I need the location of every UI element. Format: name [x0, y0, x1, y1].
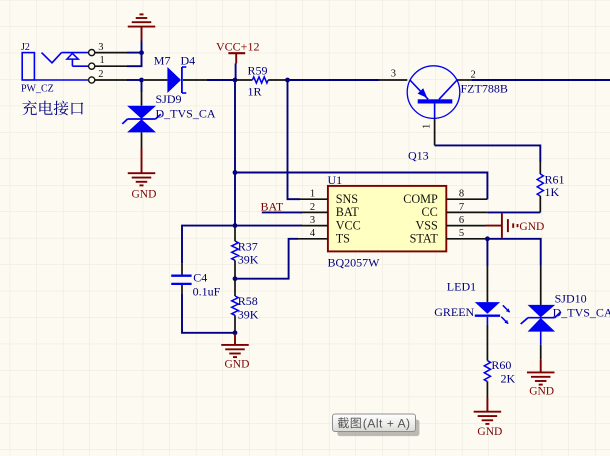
svg-text:PW_CZ: PW_CZ — [21, 83, 54, 94]
svg-text:3: 3 — [310, 215, 315, 226]
IC U1 BQ2057W body — [328, 173, 447, 269]
U1 pin 8 COMP — [403, 189, 487, 206]
svg-text:2: 2 — [471, 70, 476, 81]
svg-text:SJD9: SJD9 — [156, 92, 182, 106]
ground (top, flipped) — [128, 14, 156, 40]
svg-text:(Alt + A): (Alt + A) — [363, 416, 411, 430]
svg-text:GND: GND — [519, 221, 544, 233]
svg-text:1: 1 — [100, 55, 105, 66]
wire to VCC node — [207, 79, 235, 81]
svg-text:C4: C4 — [193, 270, 207, 284]
U1 pin 7 CC — [422, 202, 488, 219]
connector J2 PW_CZ (power jack) — [21, 42, 105, 94]
resistor R60 bottom pin — [486, 382, 488, 399]
svg-text:4: 4 — [310, 228, 316, 239]
wire C4 top — [182, 226, 235, 264]
resistor R37 39K — [232, 239, 259, 266]
LED LED1 GREEN top pin — [486, 266, 488, 302]
wire TS to divider — [235, 239, 298, 279]
svg-text:1: 1 — [310, 189, 315, 200]
junction COMP tee — [233, 170, 238, 175]
wire collector to right edge — [472, 79, 610, 81]
svg-text:0.1uF: 0.1uF — [193, 285, 221, 299]
transistor Q13 FZT788B — [407, 66, 508, 163]
svg-text:VCC: VCC — [336, 218, 361, 232]
svg-text:M7: M7 — [154, 53, 171, 67]
resistor R58 bottom pin — [234, 315, 236, 333]
svg-text:1: 1 — [422, 124, 433, 129]
svg-text:D_TVS_CA: D_TVS_CA — [553, 306, 610, 320]
svg-text:VSS: VSS — [415, 218, 438, 232]
svg-text:6: 6 — [459, 215, 464, 226]
svg-text:5: 5 — [459, 228, 464, 239]
svg-text:COMP: COMP — [403, 192, 438, 206]
svg-text:39K: 39K — [238, 307, 259, 321]
svg-text:TS: TS — [336, 232, 350, 246]
svg-text:3: 3 — [391, 69, 396, 80]
U1 pin 5 STAT — [410, 228, 488, 245]
diode D4 (M7) — [154, 53, 195, 93]
svg-text:FZT788B: FZT788B — [461, 81, 508, 95]
svg-text:R58: R58 — [238, 294, 258, 308]
Q13 pin 3 — [380, 79, 408, 81]
resistor R60 2K — [484, 358, 515, 385]
LED LED1 GREEN — [434, 280, 510, 324]
svg-text:BQ2057W: BQ2057W — [328, 255, 381, 269]
resistor R59 1R — [248, 63, 269, 98]
junction divider bottom — [233, 330, 238, 335]
U1 pin 6 VSS — [415, 215, 485, 232]
junction STAT — [485, 236, 490, 241]
svg-text:R59: R59 — [248, 63, 268, 77]
svg-text:BAT: BAT — [336, 205, 360, 219]
wire gnd to node A — [141, 41, 143, 53]
resistor R61 1K — [537, 172, 564, 199]
TVS diode SJD10 D_TVS_CA — [521, 291, 610, 331]
resistor R61 bottom pin — [539, 196, 541, 212]
pin 1 stub — [95, 65, 127, 67]
resistor R59 1R left pin — [235, 79, 252, 81]
svg-text:3: 3 — [98, 42, 103, 53]
svg-text:2: 2 — [310, 202, 315, 213]
wire STAT to SJD10 — [487, 239, 540, 265]
junction node A — [139, 50, 144, 55]
svg-text:STAT: STAT — [410, 232, 439, 246]
U1 pin 4 TS — [298, 228, 350, 245]
capacitor C4 top pin — [181, 263, 183, 274]
power port VCC+12 — [216, 40, 259, 64]
svg-text:2K: 2K — [501, 371, 516, 385]
svg-text:1K: 1K — [545, 185, 560, 199]
svg-text:8: 8 — [459, 189, 464, 200]
wire node B down — [141, 80, 143, 92]
svg-text:39K: 39K — [238, 253, 259, 267]
junction node B (anode / TVS) — [139, 78, 144, 83]
TVS diode SJD10 top pin — [540, 265, 542, 305]
U1 pin 1 SNS — [289, 189, 358, 206]
resistor R58 39K — [232, 294, 259, 321]
wire VCC node down — [234, 80, 236, 226]
svg-text:2: 2 — [98, 69, 103, 80]
svg-text:GND: GND — [225, 359, 250, 371]
wire C4 bottom — [182, 293, 235, 332]
wire Q13 base to R61 — [435, 145, 541, 162]
svg-text:GND: GND — [132, 188, 157, 200]
svg-text:VCC+12: VCC+12 — [216, 40, 259, 54]
svg-text:GND: GND — [477, 426, 502, 438]
svg-text:R60: R60 — [491, 358, 511, 372]
resistor R58 top pin — [234, 279, 236, 296]
U1 pin 3 VCC — [300, 215, 361, 232]
Q13 collector pin out — [457, 79, 472, 81]
svg-text:SNS: SNS — [336, 192, 359, 206]
wire pin2 — [127, 79, 142, 81]
svg-text:7: 7 — [459, 202, 464, 213]
resistor R37 top pin — [234, 226, 236, 242]
ground below SJD9 — [128, 148, 157, 200]
ground VSS (rotated right) — [486, 213, 545, 238]
SJD10 bottom pin — [540, 332, 542, 345]
svg-text:GREEN: GREEN — [434, 305, 474, 319]
TVS SJD9 bottom pin — [141, 132, 143, 148]
junction VCC node — [233, 78, 238, 83]
caption: charging port (Chinese) — [22, 101, 83, 116]
resistor R59 right pin — [268, 79, 287, 81]
wire VCC pin — [235, 225, 302, 227]
svg-text:Q13: Q13 — [408, 149, 429, 163]
wire BAT — [262, 211, 302, 213]
TVS diode SJD9 D_TVS_CA pin — [141, 92, 143, 106]
resistor R37 bottom pin — [234, 260, 236, 278]
svg-text:GND: GND — [529, 385, 554, 397]
svg-text:J2: J2 — [21, 42, 30, 53]
U1 pin 2 BAT — [300, 202, 359, 219]
svg-text:D_TVS_CA: D_TVS_CA — [156, 107, 216, 121]
wire R59 to Q13 base — [288, 79, 380, 81]
svg-text:CC: CC — [422, 205, 438, 219]
wire STAT to LED1 — [486, 239, 488, 266]
svg-text:SJD10: SJD10 — [555, 291, 587, 305]
ground below SJD10 — [527, 360, 555, 398]
ground below R60 — [474, 398, 503, 438]
svg-text:D4: D4 — [181, 53, 196, 67]
capacitor C4 bottom pin — [181, 285, 183, 293]
diode D4 cathode pin — [183, 79, 207, 81]
ground below R58 — [221, 333, 249, 371]
resistor R61 top pin — [539, 162, 541, 174]
svg-text:LED1: LED1 — [447, 280, 476, 294]
wire VCC port to main — [235, 64, 237, 81]
capacitor C4 0.1uF — [171, 270, 220, 298]
svg-text:U1: U1 — [328, 173, 343, 187]
tooltip 截图(Alt+A) — [333, 414, 420, 436]
pin 3 stub — [95, 52, 127, 54]
TVS diode SJD9 D_TVS_CA — [122, 92, 216, 132]
svg-text:1R: 1R — [248, 84, 262, 98]
LED1 bottom pin — [486, 317, 488, 325]
junction divider mid — [233, 276, 238, 281]
pin 2 stub — [95, 79, 127, 81]
wire node A — [127, 52, 142, 54]
wire pin1 to node A — [127, 53, 142, 66]
wire R61 to pin CC — [487, 211, 540, 213]
junction VCC pin tee — [233, 223, 238, 228]
svg-text:R37: R37 — [238, 239, 258, 253]
wire COMP net — [235, 173, 487, 200]
Q13 base pin down — [434, 119, 436, 146]
wire R59 out down to SNS — [288, 80, 301, 199]
diode D4 (M7) anode pin — [144, 79, 167, 81]
junction R59 output — [285, 78, 290, 83]
